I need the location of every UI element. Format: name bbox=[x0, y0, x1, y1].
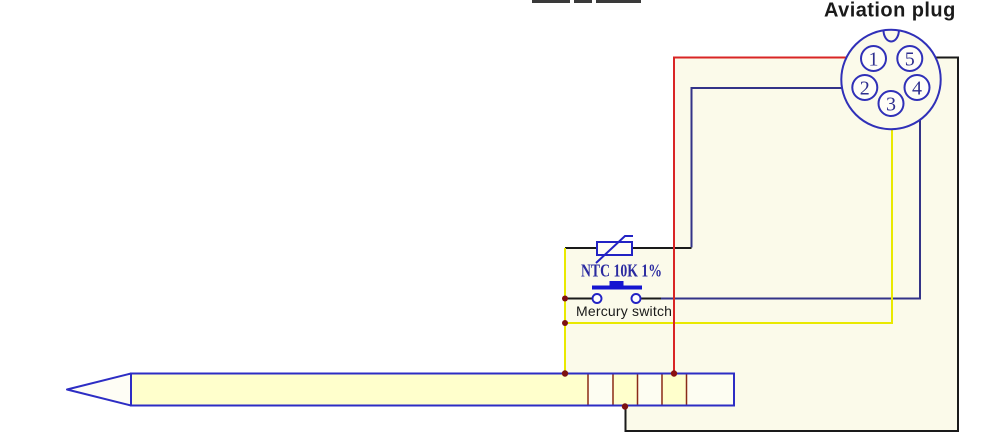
mercury switch bar bbox=[592, 286, 642, 290]
junction dot red wire at probe bbox=[671, 370, 677, 376]
probe divider 1 bbox=[587, 375, 589, 405]
wire: black NTC horizontal bbox=[565, 247, 692, 249]
wire: dark blue from pin 2 down to NTC bbox=[692, 88, 853, 248]
wire: yellow left vertical to probe bbox=[564, 248, 566, 373]
wire: yellow from pin 3 down and left bbox=[565, 117, 892, 324]
svg-text:NTC 10K 1%: NTC 10K 1% bbox=[581, 261, 662, 281]
cropped title artifact at top bbox=[532, 0, 641, 3]
probe tip bbox=[67, 374, 131, 406]
probe divider 5 bbox=[686, 375, 688, 405]
wire: red from pin 1 down to probe bbox=[674, 58, 861, 374]
plug pin 2 bbox=[852, 75, 877, 100]
svg-text:5: 5 bbox=[905, 48, 915, 70]
wire: black from pin 5 around right and bottom to probe bbox=[626, 58, 959, 432]
svg-text:4: 4 bbox=[912, 77, 922, 99]
wire: black mercury switch right stub bbox=[641, 298, 662, 300]
probe cell white 3 bbox=[688, 375, 734, 405]
thermistor NTC body bbox=[597, 242, 632, 255]
aviation plug shell bbox=[841, 30, 940, 129]
wire: dark blue from mercury switch up to pin 4 bbox=[661, 101, 920, 299]
probe divider 3 bbox=[637, 375, 639, 405]
junction dot black wire at probe bottom bbox=[622, 403, 628, 409]
plug pin 1 bbox=[861, 46, 886, 71]
svg-text:3: 3 bbox=[886, 93, 896, 115]
plug pin 5 bbox=[897, 46, 922, 71]
plug pin 3 bbox=[879, 91, 904, 116]
aviation plug key notch bbox=[884, 30, 899, 41]
mercury switch right terminal bbox=[632, 294, 641, 303]
probe body bbox=[131, 374, 734, 406]
enclosed circuit region fill (pale ivory) bbox=[565, 58, 958, 432]
junction dot at yellow tee bbox=[562, 320, 568, 326]
svg-text:Mercury switch: Mercury switch bbox=[576, 303, 672, 319]
svg-text:Aviation plug: Aviation plug bbox=[824, 0, 956, 22]
probe divider 4 bbox=[661, 375, 663, 405]
mercury switch button bbox=[610, 281, 624, 286]
probe cell white 2 bbox=[639, 375, 662, 405]
plug pin 4 bbox=[905, 75, 930, 100]
mercury switch left terminal bbox=[593, 294, 602, 303]
junction dot at mercury left bbox=[562, 296, 568, 302]
svg-text:2: 2 bbox=[860, 77, 870, 99]
wire: black mercury switch left stub bbox=[565, 298, 592, 300]
svg-text:1: 1 bbox=[869, 48, 879, 70]
probe cell white 1 bbox=[589, 375, 612, 405]
probe divider 2 bbox=[612, 375, 614, 405]
junction dot yellow wire at probe bbox=[562, 370, 568, 376]
thermistor diagonal stroke bbox=[596, 236, 633, 263]
